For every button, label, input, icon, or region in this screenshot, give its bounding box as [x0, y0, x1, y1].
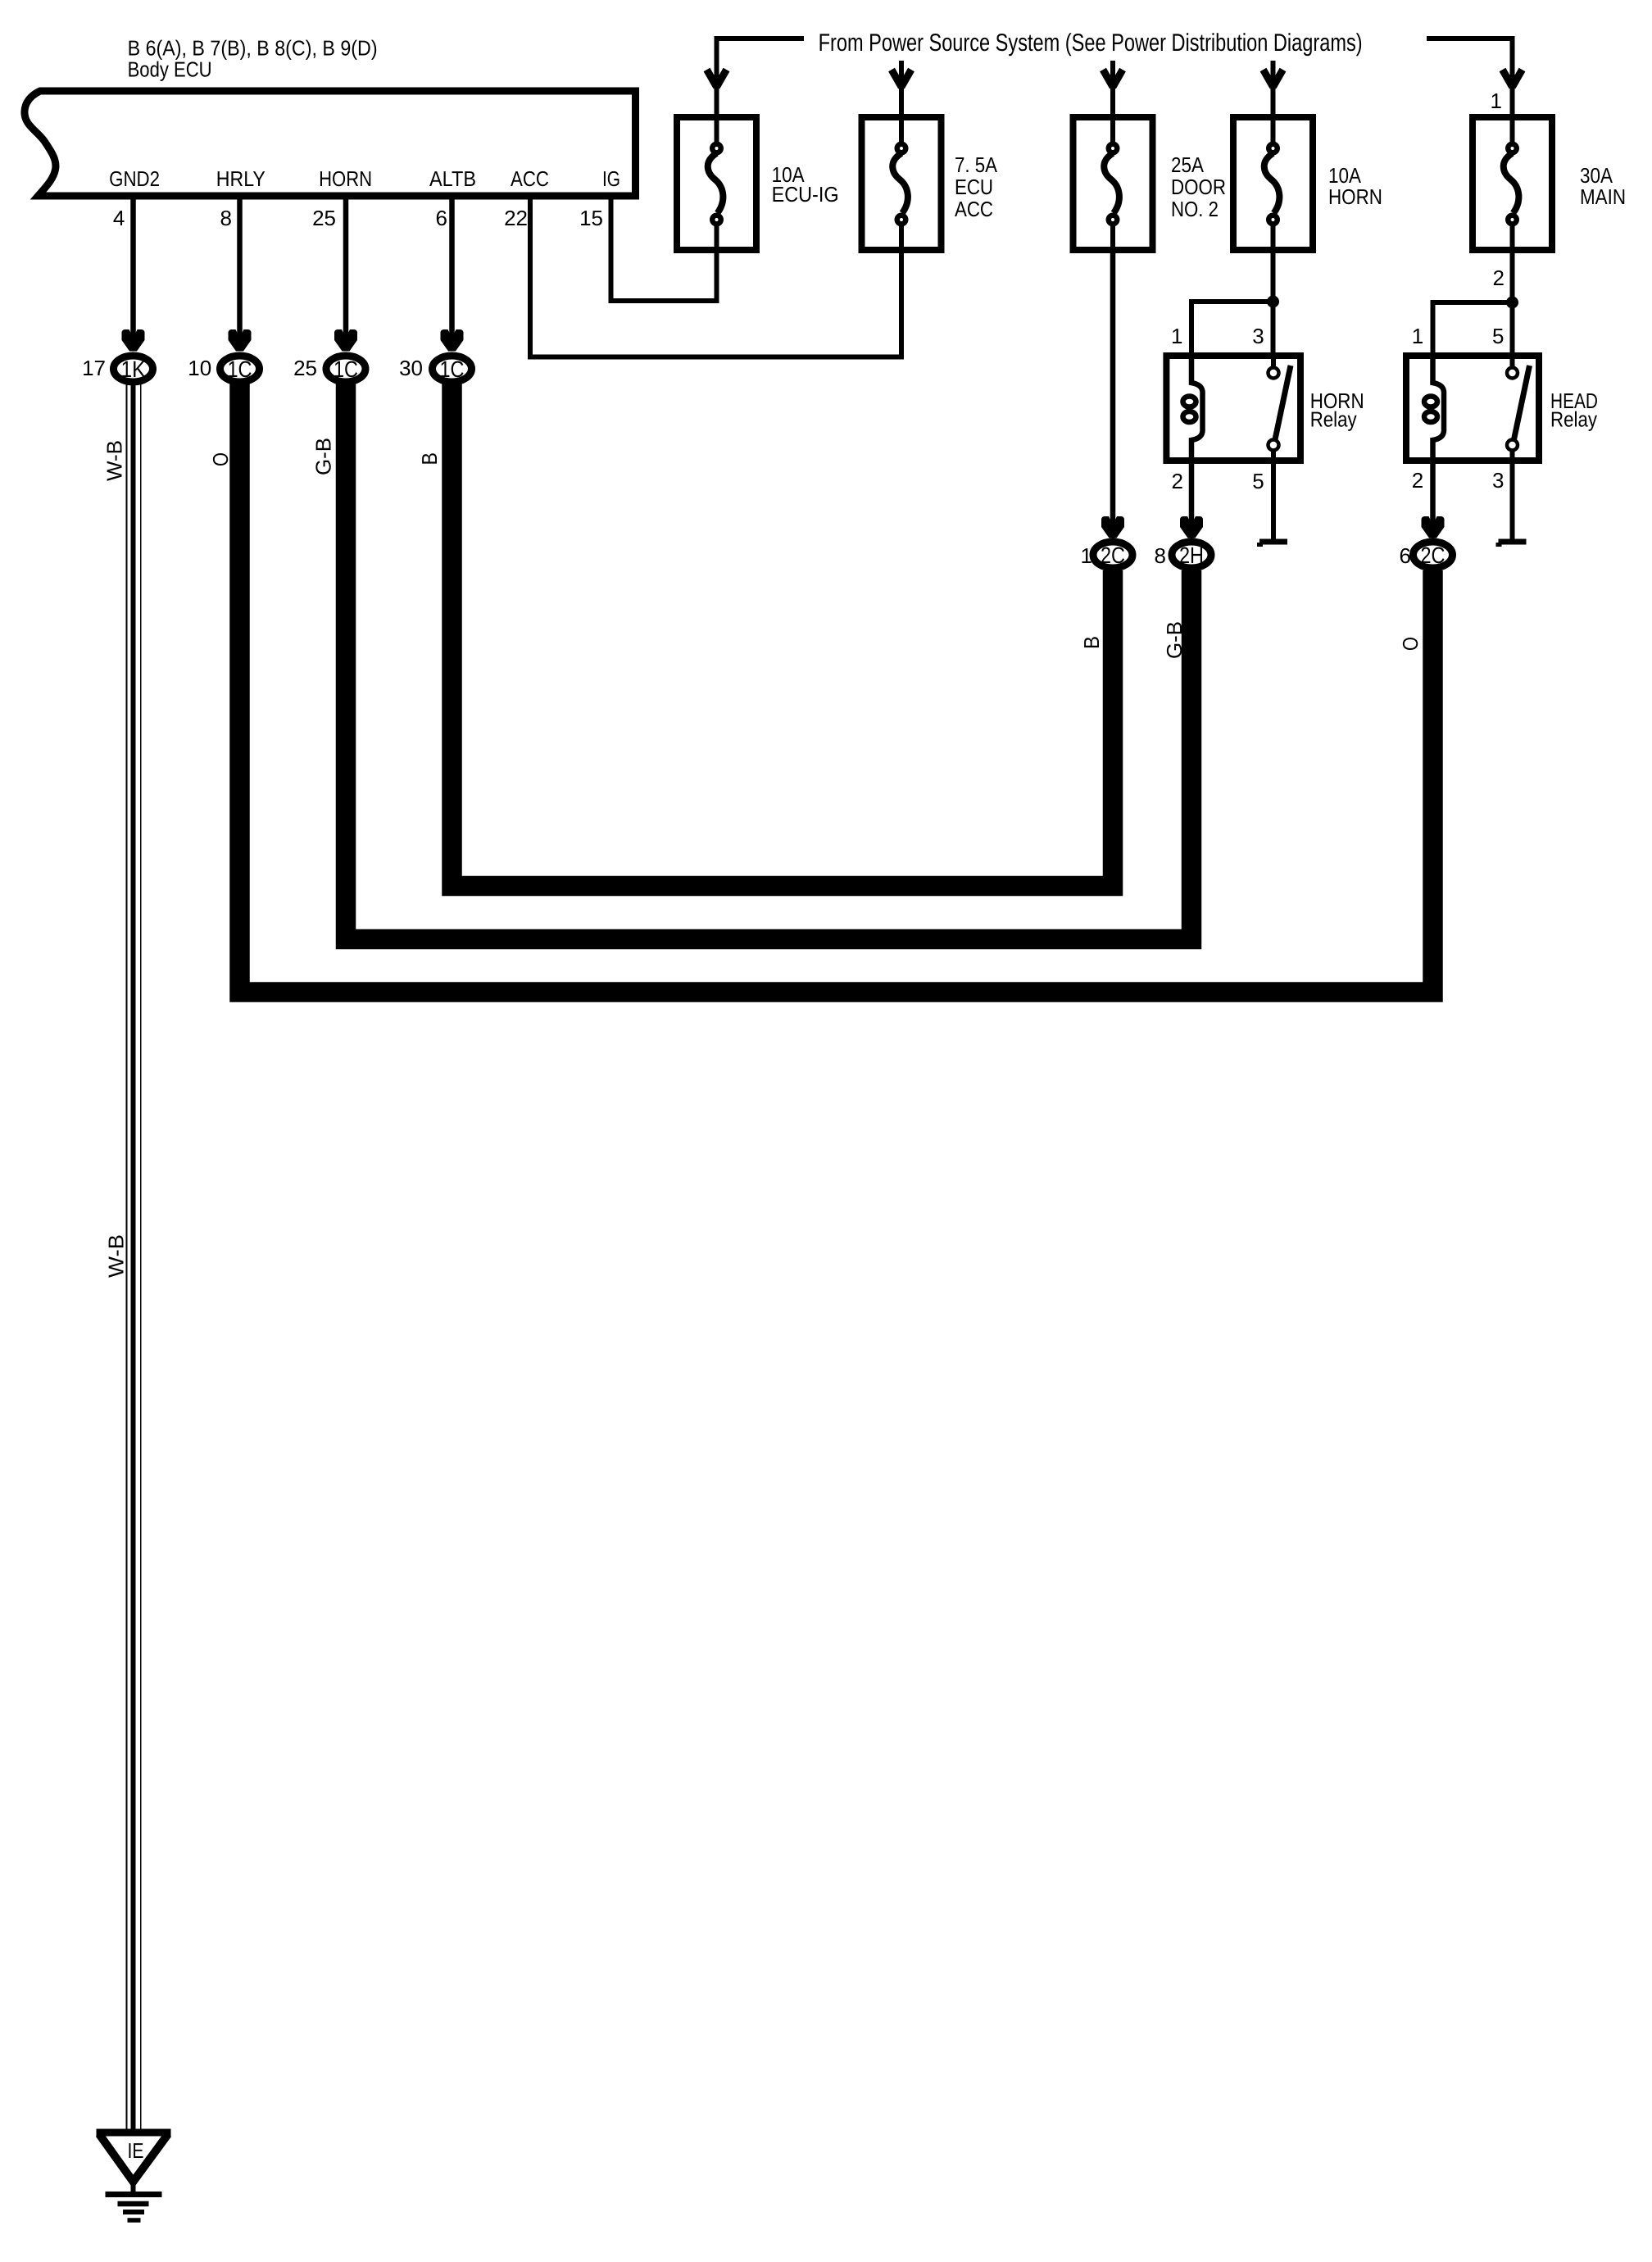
MAIN fuse pin number 1: [1491, 89, 1502, 113]
connector pin number 17: [82, 356, 106, 380]
label HORN Relay: [1310, 388, 1364, 432]
pin numbers 4 8 25 6 22 15: [113, 206, 603, 230]
fuse 10A HORN: [1233, 117, 1313, 250]
svg-text:B: B: [417, 452, 442, 466]
label 7.5A ECU ACC: [955, 152, 998, 221]
svg-text:Relay: Relay: [1550, 407, 1597, 432]
power feed wire to ECU-IG fuse: [707, 39, 805, 115]
svg-text:25: 25: [293, 356, 317, 380]
wire IG pin 15 to ECU-IG fuse: [611, 196, 717, 301]
svg-text:2: 2: [1493, 266, 1504, 290]
connector 1C cavity 30: [433, 356, 472, 382]
wire colour label O (HRLY wire): [208, 452, 233, 466]
ground (HORN relay pin 5): [1257, 542, 1287, 547]
svg-text:2C: 2C: [1101, 543, 1125, 568]
svg-text:2: 2: [1412, 468, 1423, 493]
svg-text:1: 1: [1491, 89, 1502, 113]
relay HEAD: coil (pins 1-2): [1424, 356, 1444, 461]
wire colour label W-B (lower): [103, 1234, 128, 1278]
svg-text:30: 30: [399, 356, 423, 380]
svg-text:Relay: Relay: [1310, 407, 1357, 432]
wire HEAD relay pin 2 to connector 2C: [1422, 461, 1445, 538]
MAIN fuse pin number 2: [1493, 266, 1504, 290]
wire ALTB pin 6 down to connector 1C: [441, 196, 464, 352]
wire HORN fuse to HORN relay pin 3: [1271, 250, 1276, 356]
svg-text:8: 8: [1155, 543, 1166, 568]
relay HEAD pin numbers 1 5 2 3: [1412, 324, 1504, 493]
wire junction to HEAD relay pin 1: [1433, 302, 1513, 356]
label 10A ECU-IG: [772, 162, 839, 207]
svg-text:W-B: W-B: [102, 440, 127, 481]
svg-text:1C: 1C: [334, 357, 358, 382]
svg-text:NO. 2: NO. 2: [1171, 197, 1219, 221]
connector pin number 8: [1155, 543, 1166, 568]
wire DOOR NO.2 fuse to connector 2C: [1101, 250, 1124, 538]
wire colour label W-B (upper): [102, 440, 127, 481]
svg-text:From Power Source System (See: From Power Source System (See Power Dist…: [819, 30, 1363, 57]
svg-text:Body ECU: Body ECU: [128, 57, 212, 82]
wire MAIN fuse to HEAD relay pin 5: [1510, 250, 1515, 356]
svg-text:GND2: GND2: [109, 166, 160, 191]
svg-text:1: 1: [1171, 324, 1182, 348]
connector 1C cavity 25: [326, 356, 365, 382]
wire G-B (thick): connector 1C(25) to connector 2H(8): [346, 384, 1191, 939]
wire colour label G-B (right): [1162, 621, 1187, 659]
svg-text:25A: 25A: [1171, 152, 1205, 177]
wire colour label G-B (HORN wire): [311, 438, 336, 475]
svg-text:6: 6: [1400, 543, 1411, 568]
svg-text:ECU-IG: ECU-IG: [772, 182, 839, 207]
svg-text:ACC: ACC: [955, 197, 993, 221]
svg-text:17: 17: [82, 356, 106, 380]
power feed wire to MAIN fuse: [1427, 39, 1523, 115]
relay HORN: box: [1166, 356, 1300, 461]
svg-text:ALTB: ALTB: [429, 166, 476, 191]
svg-text:3: 3: [1492, 468, 1504, 493]
svg-text:B: B: [1079, 636, 1104, 649]
fuse 7.5A ECU ACC: [862, 117, 942, 250]
label 10A HORN: [1328, 163, 1382, 209]
svg-text:25: 25: [312, 206, 336, 230]
svg-text:2C: 2C: [1421, 543, 1445, 568]
svg-text:W-B: W-B: [103, 1234, 128, 1278]
wire HRLY pin 8 down to connector 1C: [229, 196, 252, 352]
connector pin number 6: [1400, 543, 1411, 568]
pin name labels GND2 HRLY HORN ALTB ACC IG: [109, 166, 620, 191]
connector pin number 1: [1081, 543, 1092, 568]
svg-text:HORN: HORN: [1328, 184, 1382, 209]
power feed wire to HORN fuse: [1264, 61, 1283, 115]
wire junction to HORN relay pin 1: [1191, 302, 1273, 356]
svg-text:2H: 2H: [1179, 543, 1204, 568]
wire colour label B (ALTB wire): [417, 452, 442, 466]
svg-text:G-B: G-B: [1162, 621, 1187, 659]
relay HEAD: box: [1406, 356, 1539, 461]
svg-text:MAIN: MAIN: [1580, 184, 1626, 209]
svg-text:G-B: G-B: [311, 438, 336, 475]
svg-text:1C: 1C: [228, 357, 252, 382]
wire HORN relay pin 5 to ground: [1271, 461, 1276, 539]
power feed wire to DOOR NO.2 fuse: [1103, 61, 1123, 115]
svg-text:10: 10: [188, 356, 211, 380]
connector pin number 10: [188, 356, 211, 380]
connector 2C cavity 1: [1093, 542, 1132, 568]
wire colour label O (right): [1398, 637, 1423, 651]
relay HORN: switch (pins 3-5): [1268, 356, 1291, 461]
svg-text:2: 2: [1172, 469, 1183, 493]
svg-text:5: 5: [1252, 469, 1264, 493]
power feed wire to ECU ACC fuse: [892, 61, 911, 115]
connector 2C cavity 6: [1414, 542, 1453, 568]
svg-text:7. 5A: 7. 5A: [955, 152, 998, 177]
ground (HEAD relay pin 3): [1496, 542, 1527, 547]
svg-text:1: 1: [1081, 543, 1092, 568]
svg-text:ECU: ECU: [955, 175, 993, 199]
wire O (thick): connector 1C(10) to connector 2C(6): [240, 384, 1433, 992]
svg-text:O: O: [208, 452, 233, 466]
wire colour label B (right): [1079, 636, 1104, 649]
relay HORN pin numbers 1 3 2 5: [1171, 324, 1264, 493]
svg-text:6: 6: [436, 206, 447, 230]
label: B 6(A), B 7(B), B 8(C), B 9(D) / Body ECU: [128, 36, 378, 82]
fuse 30A MAIN: [1473, 117, 1552, 250]
svg-text:5: 5: [1492, 324, 1504, 348]
label: From Power Source System (See Power Distribution Diagrams): [819, 30, 1363, 57]
svg-text:DOOR: DOOR: [1171, 175, 1226, 199]
wire HEAD relay pin 3 to ground: [1510, 461, 1515, 539]
relay HORN: coil (pins 1-2): [1183, 356, 1203, 461]
connector pin number 30: [399, 356, 423, 380]
label 30A MAIN: [1580, 163, 1626, 209]
svg-text:3: 3: [1252, 324, 1264, 348]
connector 2H cavity 8: [1172, 542, 1211, 568]
junction dot at HORN fuse output: [1267, 296, 1279, 308]
svg-text:1K: 1K: [121, 357, 146, 382]
fuse 25A DOOR NO.2: [1073, 117, 1153, 250]
svg-text:ACC: ACC: [511, 166, 549, 191]
connector pin number 25: [293, 356, 317, 380]
ground IE (body ground triangle + chassis bars): [97, 2133, 171, 2220]
wire ACC pin 22 to ECU ACC fuse: [530, 196, 901, 357]
svg-text:O: O: [1398, 637, 1423, 651]
wire HORN pin 25 down to connector 1C: [334, 196, 357, 352]
connector 1C cavity 10: [220, 356, 260, 382]
junction dot at MAIN fuse output: [1506, 297, 1518, 309]
relay HEAD: switch (pins 5-3): [1507, 356, 1530, 461]
Body ECU connector block B6(A)/B7(B)/B8(C)/B9(D): [25, 91, 636, 196]
label HEAD Relay: [1550, 388, 1598, 432]
wire B (thick): connector 1C(30) to connector 2C(1): [452, 384, 1114, 886]
svg-text:1: 1: [1412, 324, 1423, 348]
svg-text:HRLY: HRLY: [216, 166, 265, 191]
svg-text:1C: 1C: [440, 357, 465, 382]
wire W-B: connector 1K(17) to ground IE (striped): [127, 384, 141, 2130]
svg-text:HORN: HORN: [319, 166, 372, 191]
svg-text:IE: IE: [128, 2138, 144, 2163]
svg-text:IG: IG: [602, 166, 620, 191]
label 25A DOOR NO.2: [1171, 152, 1226, 221]
svg-text:8: 8: [220, 206, 232, 230]
wire HORN relay pin 2 to connector 2H: [1180, 461, 1203, 538]
svg-text:15: 15: [579, 206, 603, 230]
fuse 10A ECU-IG: [677, 117, 756, 250]
svg-text:4: 4: [113, 206, 125, 230]
connector 1K cavity 17: [114, 356, 153, 382]
svg-text:22: 22: [504, 206, 528, 230]
wire GND2 pin 4 down to connector 1K: [122, 196, 145, 352]
